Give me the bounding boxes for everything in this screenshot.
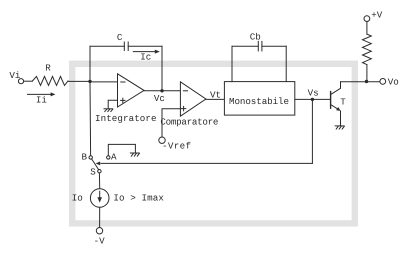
wire contact A to ground	[108, 144, 135, 155]
wire integrator noninverting input to ground	[108, 100, 117, 108]
wire Vi to R	[24, 80, 33, 82]
wire integrator output to comparator	[144, 90, 180, 92]
wire monostable output to transistor base	[295, 98, 330, 100]
wire switch control	[96, 162, 313, 166]
arrow Ic	[133, 50, 160, 54]
transistor Q T base bar	[330, 92, 332, 109]
terminal +V	[364, 16, 370, 22]
plus marker comparator	[181, 106, 185, 110]
svg-text:-V: -V	[94, 235, 106, 246]
svg-text:Vo: Vo	[388, 76, 399, 87]
wire top feedback left	[90, 45, 124, 47]
arrow Ii	[28, 92, 56, 96]
svg-text:C: C	[117, 32, 123, 43]
node Vs	[311, 98, 314, 101]
monostable block	[224, 82, 294, 116]
svg-text:Cb: Cb	[250, 31, 261, 42]
capacitor Cb	[258, 41, 262, 51]
wire top feedback right	[128, 45, 162, 47]
wire input node down to switch contact B	[89, 81, 92, 155]
switch contact A	[107, 156, 110, 159]
terminal Vo	[380, 79, 386, 85]
svg-text:Vi: Vi	[9, 70, 21, 81]
terminal -V	[96, 228, 102, 234]
wire +V to pull-up resistor	[366, 22, 368, 35]
wire current source to -V	[99, 207, 101, 227]
terminal -Vref	[159, 137, 165, 143]
wire collector to Vo	[341, 81, 380, 83]
wire comparator output Vt	[206, 98, 225, 100]
switch blade	[92, 159, 99, 170]
svg-text:Io > Imax: Io > Imax	[113, 192, 164, 203]
wire input node to integrator inverting input	[90, 81, 118, 83]
wire pole S to current source	[98, 173, 100, 189]
terminal Vi	[18, 79, 23, 84]
svg-text:B: B	[82, 152, 88, 163]
svg-text:Io: Io	[72, 192, 83, 203]
svg-text:Ii: Ii	[36, 94, 48, 105]
switch pole S	[98, 170, 101, 173]
resistor R	[32, 76, 68, 85]
minus marker integrator	[121, 81, 125, 83]
svg-text:Monostabile: Monostabile	[229, 96, 289, 107]
wire Cb top left	[232, 45, 258, 47]
wire comparator noninverting input to Vref	[162, 109, 180, 137]
svg-text:Vc: Vc	[154, 93, 165, 104]
current source Io	[90, 189, 109, 208]
svg-text:T: T	[340, 96, 346, 107]
transistor collector	[331, 82, 341, 95]
wire feedback down to Vc node	[161, 46, 163, 91]
switch contact B	[89, 156, 92, 159]
watermark frame	[72, 64, 355, 224]
node Vc	[160, 89, 163, 92]
svg-text:-Vref: -Vref	[162, 141, 191, 152]
svg-text:Vs: Vs	[308, 88, 319, 99]
wire Cb left leg	[231, 46, 233, 81]
transistor emitter	[331, 105, 341, 126]
svg-text:Comparatore: Comparatore	[160, 117, 218, 128]
node Vo	[365, 80, 368, 83]
node input summing junction	[88, 80, 91, 83]
ground integrator	[104, 109, 113, 112]
svg-text:Ic: Ic	[140, 51, 151, 62]
op-amp integrator U1	[118, 74, 145, 107]
wire Cb top right	[262, 45, 286, 47]
minus marker comparator	[183, 90, 187, 92]
plus marker integrator	[121, 98, 125, 102]
wire R to input node	[68, 80, 90, 82]
svg-text:+V: +V	[371, 10, 383, 21]
ground switch A	[130, 153, 139, 156]
resistor pull-up	[363, 34, 372, 65]
ground transistor emitter	[335, 126, 344, 129]
op-amp comparator U2	[180, 82, 206, 116]
wire node up to capacitor C	[89, 46, 91, 81]
svg-text:R: R	[45, 63, 51, 74]
wire Vs down	[311, 99, 313, 163]
wire Cb right leg	[285, 46, 287, 81]
svg-text:Integratore: Integratore	[95, 113, 157, 124]
wire pull-up resistor to node	[366, 65, 368, 82]
svg-text:Vt: Vt	[210, 90, 221, 101]
svg-text:S: S	[90, 166, 96, 177]
capacitor C	[124, 42, 128, 51]
svg-text:A: A	[111, 152, 117, 163]
